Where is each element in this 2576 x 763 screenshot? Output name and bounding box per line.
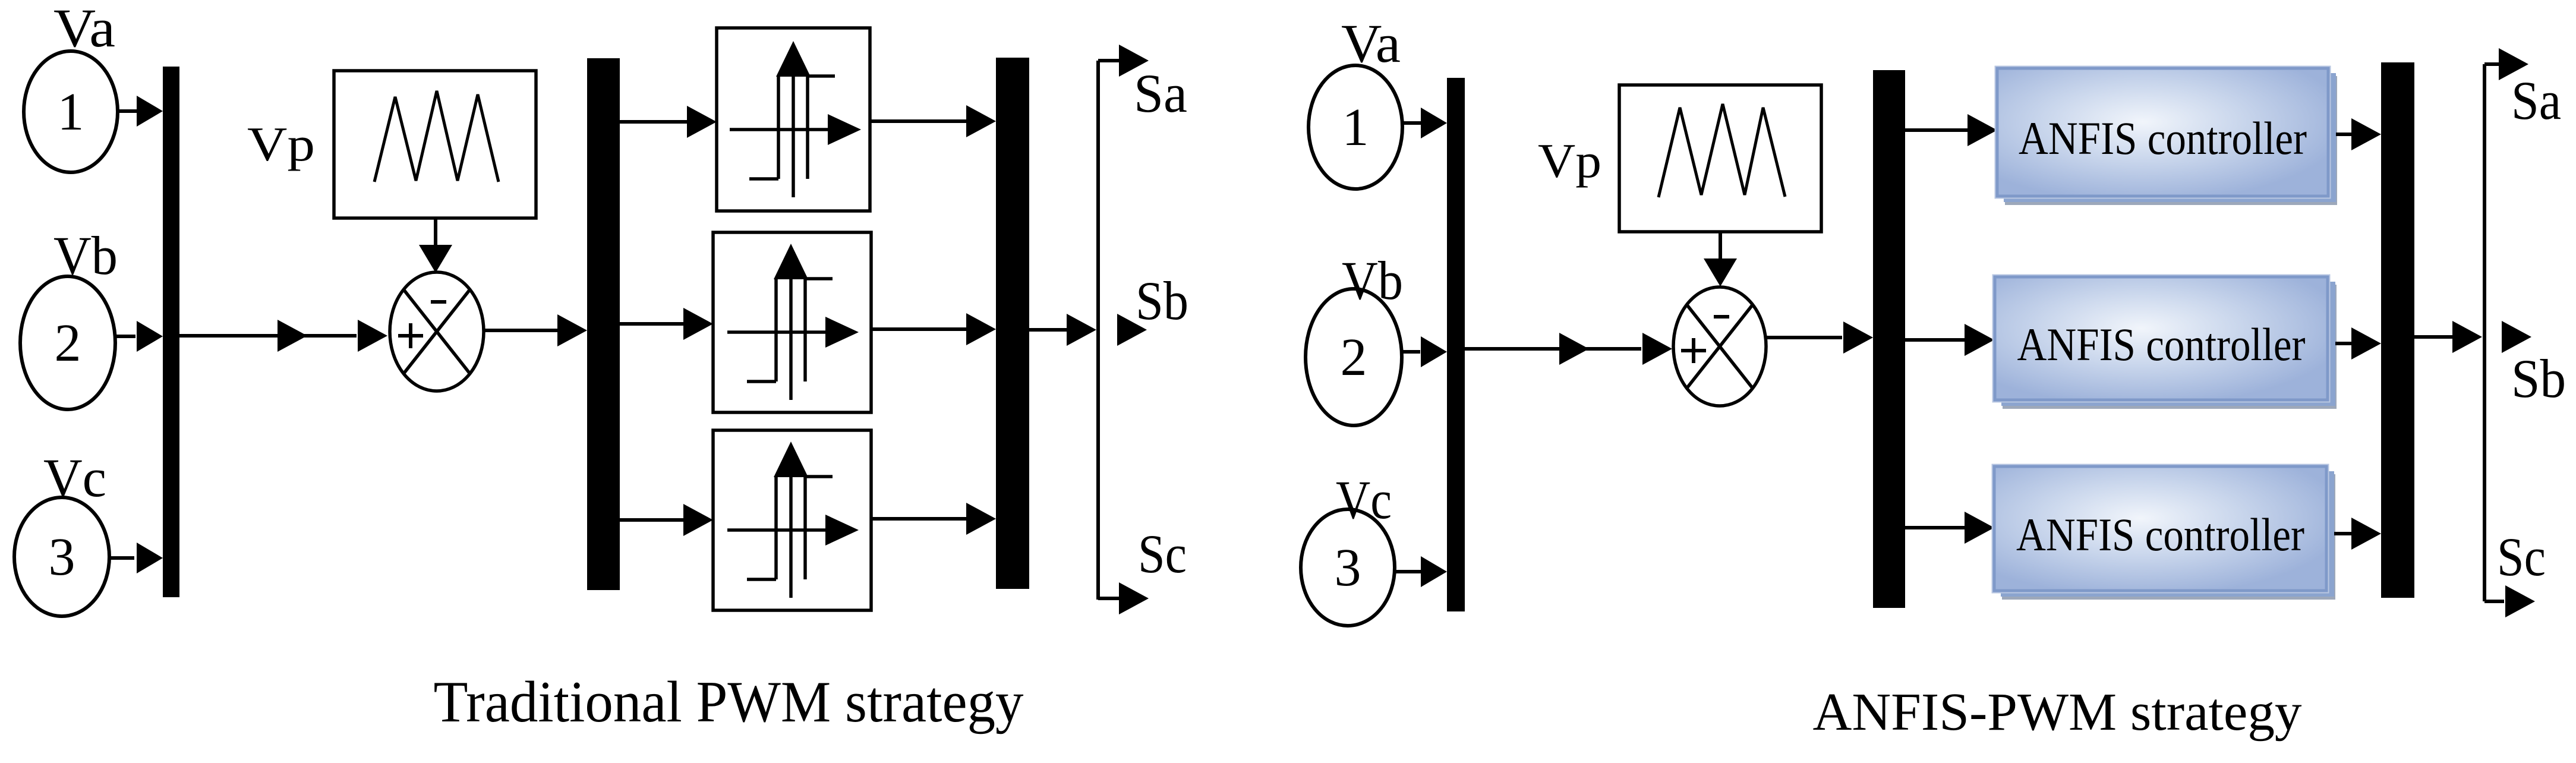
svg-text:Sa: Sa — [2511, 70, 2561, 131]
svg-text:Va: Va — [53, 0, 115, 58]
svg-text:ANFIS controller: ANFIS controller — [2016, 509, 2304, 560]
svg-text:Sc: Sc — [1138, 524, 1187, 584]
svg-text:Sa: Sa — [1134, 63, 1187, 124]
svg-text:Vp: Vp — [247, 117, 315, 171]
svg-text:ANFIS controller: ANFIS controller — [2019, 112, 2307, 164]
svg-text:3: 3 — [49, 528, 75, 587]
svg-text:Sb: Sb — [2511, 348, 2566, 409]
svg-text:ANFIS-PWM strategy: ANFIS-PWM strategy — [1813, 683, 2302, 742]
svg-text:Vb: Vb — [1342, 250, 1403, 311]
svg-text:1: 1 — [58, 83, 84, 141]
svg-text:1: 1 — [1342, 98, 1369, 157]
svg-text:Vp: Vp — [1538, 134, 1601, 188]
svg-text:2: 2 — [1341, 328, 1367, 387]
svg-text:3: 3 — [1335, 538, 1361, 597]
svg-text:Sc: Sc — [2497, 526, 2546, 587]
svg-text:2: 2 — [55, 314, 81, 373]
svg-text:Traditional PWM strategy: Traditional PWM strategy — [434, 670, 1024, 734]
svg-text:Vc: Vc — [1336, 469, 1392, 530]
svg-text:ANFIS controller: ANFIS controller — [2017, 319, 2306, 370]
svg-text:Sb: Sb — [1136, 270, 1188, 331]
